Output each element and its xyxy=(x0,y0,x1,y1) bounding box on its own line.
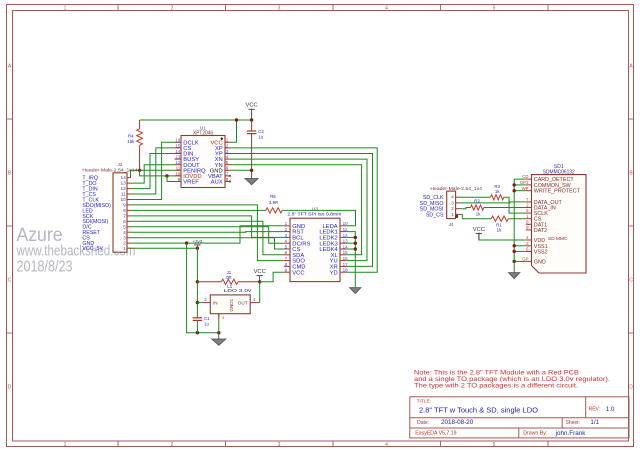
svg-text:EasyEDA V5.7.19: EasyEDA V5.7.19 xyxy=(415,431,456,437)
svg-text:5: 5 xyxy=(493,6,496,12)
svg-text:D: D xyxy=(629,385,633,391)
U1 left pin names and numbers xyxy=(175,138,206,186)
svg-text:The type with 2 TO packages is: The type with 2 TO packages is a differe… xyxy=(414,382,578,389)
svg-text:GND1: GND1 xyxy=(229,298,234,311)
wire GND branch down to ground rail xyxy=(187,243,219,333)
wire J2 D/C to U3 DC/RS xyxy=(131,227,284,243)
svg-text:15: 15 xyxy=(343,250,349,255)
junction VCC rail / U1 VCC xyxy=(235,118,238,121)
svg-text:11: 11 xyxy=(176,166,181,171)
svg-text:4: 4 xyxy=(385,442,388,448)
junction J1 rail / VCC flag / LDO OUT xyxy=(258,280,261,283)
svg-text:R2: R2 xyxy=(474,198,480,203)
svg-text:0R: 0R xyxy=(226,275,232,280)
svg-text:5: 5 xyxy=(123,224,126,230)
wire C1 top lead xyxy=(196,303,198,318)
svg-text:Header-Male-2.54_1x4: Header-Male-2.54_1x4 xyxy=(430,186,482,191)
junction SD GND ground bus xyxy=(513,260,516,263)
resistor R6 3.9R xyxy=(266,208,282,213)
svg-text:4: 4 xyxy=(385,6,388,12)
J4 pin names and numbers xyxy=(420,195,455,219)
ground under SD card xyxy=(513,271,515,274)
wire IOVDD branch down to VREF xyxy=(167,176,175,182)
svg-text:14: 14 xyxy=(175,149,181,154)
connector J2 box xyxy=(113,173,127,252)
junction LEDK4 bus xyxy=(354,247,357,250)
wire J1 rail left lead xyxy=(197,281,221,283)
svg-text:GP2: GP2 xyxy=(520,180,529,185)
svg-text:YD: YD xyxy=(330,270,338,276)
wire +3v3 node down to J1 rail xyxy=(196,248,198,282)
junction LDO IN / C1 xyxy=(196,301,199,304)
J4 pin stubs xyxy=(456,197,461,214)
wire R1 to SD CS xyxy=(508,218,526,220)
wire J4 SD_MISO to SD DATA_OUT xyxy=(461,202,526,203)
ground under U3 LED cathodes xyxy=(350,288,362,294)
svg-text:2: 2 xyxy=(171,6,174,12)
wire J2 T_IRQ jog up to PENIRQ xyxy=(130,170,132,177)
junction +3v3 flag node xyxy=(196,247,199,250)
border row letters A-D xyxy=(8,64,634,391)
wire J2 T_CS to U1 CS xyxy=(131,148,175,194)
wire PENIRQ row xyxy=(130,169,175,171)
wire U1 VCC pin1 dogleg to rail xyxy=(231,120,237,142)
wire SD ground bus to ground xyxy=(513,261,515,271)
resistor R4 15k xyxy=(139,120,141,129)
svg-text:2.8" TFT SPI Iso 0.8mm: 2.8" TFT SPI Iso 0.8mm xyxy=(287,211,341,217)
wire U3 VCC to VCC rail xyxy=(260,272,284,282)
svg-text:15k: 15k xyxy=(127,139,135,144)
U1 pin stubs xyxy=(175,142,232,181)
svg-text:REV:: REV: xyxy=(589,406,600,412)
U1 right pin names and numbers xyxy=(208,138,229,186)
wire IOVDD row from R4 branch xyxy=(140,170,175,176)
U3 pin stubs xyxy=(284,226,346,272)
wire SD GP2 stub to bus xyxy=(514,184,526,186)
wire R3 to SD SCLK xyxy=(504,197,526,213)
svg-text:2.8" TFT w Touch & SD, single: 2.8" TFT w Touch & SD, single LDO xyxy=(419,405,538,414)
junction VSS1 ground bus xyxy=(513,244,516,247)
connector J4 box xyxy=(447,191,456,219)
wire SD CD to ground bus xyxy=(514,179,526,261)
svg-text:3: 3 xyxy=(123,235,126,241)
wire J2 T_DIN to U1 DIN xyxy=(131,154,175,189)
svg-text:VCC: VCC xyxy=(473,227,485,233)
resistor R2 1k xyxy=(470,205,483,210)
svg-text:11: 11 xyxy=(343,227,348,232)
svg-text:SD_CS: SD_CS xyxy=(426,212,444,218)
svg-text:14: 14 xyxy=(343,244,349,249)
svg-text:VREF: VREF xyxy=(183,180,199,186)
wire U1 GND pin6 to ground stem xyxy=(231,169,252,171)
svg-text:VSS2: VSS2 xyxy=(534,249,548,255)
junction ground rail / C1 xyxy=(196,331,199,334)
svg-text:13: 13 xyxy=(175,155,181,160)
LDO pin stubs xyxy=(202,302,211,304)
svg-text:TITLE:: TITLE: xyxy=(417,399,431,405)
svg-text:14: 14 xyxy=(120,175,126,181)
wire C2 bottom to ground xyxy=(251,134,253,179)
wire J4 SD_CS jog down to R1 xyxy=(461,214,492,218)
wire U3 LEDK1 to cathode bus xyxy=(346,232,355,288)
capacitor C2 1u xyxy=(247,130,256,132)
svg-text:+3v3: +3v3 xyxy=(193,239,203,244)
resistor J1 0R link xyxy=(221,279,238,284)
wire C1 bottom lead to ground rail xyxy=(196,320,198,332)
svg-text:J2: J2 xyxy=(118,162,123,167)
J2 pin names and numbers xyxy=(82,175,126,252)
svg-text:1/1: 1/1 xyxy=(590,419,599,426)
wire J2 CS to U3 CS xyxy=(131,238,284,249)
resistor R3 1k xyxy=(491,195,504,200)
resistor R1 1k xyxy=(491,216,508,221)
wire SD GND stub to bus xyxy=(514,260,526,262)
wire U3 LEDK4 stub to bus xyxy=(346,248,355,250)
svg-text:2: 2 xyxy=(171,442,174,448)
note text red xyxy=(414,370,610,390)
svg-text:CD: CD xyxy=(522,174,528,179)
wire J2 T_DO to U1 DOUT xyxy=(131,165,175,183)
svg-text:GP: GP xyxy=(522,257,528,262)
junction U1 GND / ground stem xyxy=(250,169,253,172)
wire U3 LEDK2 stub to bus xyxy=(346,236,355,238)
svg-text:Sheet:: Sheet: xyxy=(566,420,580,426)
wire J2 SDO(MISO) to U3 SDO xyxy=(131,205,284,261)
wire J2 GND to U3 GND xyxy=(131,226,284,243)
wire J2 T_CLK to U1 DCLK xyxy=(131,142,175,199)
wire J2 SDI(MOSI) to U3 SDA xyxy=(131,221,284,255)
svg-text:1: 1 xyxy=(64,6,67,12)
svg-text:13: 13 xyxy=(120,181,126,187)
junction WP ground bus xyxy=(513,189,516,192)
capacitor C1 1u xyxy=(193,317,202,319)
junction R4 / PENIRQ xyxy=(138,169,141,172)
wire LDO OUT up to rail xyxy=(259,282,261,303)
wire J2 LED to R6 xyxy=(131,209,266,211)
wire U1 XP to U3 YD xyxy=(231,148,377,272)
junction J1 rail left / C1 branch xyxy=(196,280,199,283)
svg-text:Header-Male-2.54_1x14: Header-Male-2.54_1x14 xyxy=(82,168,138,173)
title block frame xyxy=(410,397,629,438)
svg-text:C: C xyxy=(8,278,12,284)
svg-text:Date:: Date: xyxy=(417,420,429,426)
svg-text:LDO 3.0v: LDO 3.0v xyxy=(224,288,253,293)
wire VCC flag to SD VDD xyxy=(479,233,526,241)
junction VCC rail / C2 / VCC flag xyxy=(250,118,253,121)
svg-text:3: 3 xyxy=(278,442,281,448)
U3 pin names and numbers xyxy=(285,221,348,276)
svg-text:8: 8 xyxy=(123,208,126,214)
svg-text:12: 12 xyxy=(120,186,126,192)
svg-text:1k: 1k xyxy=(476,211,481,216)
svg-text:13: 13 xyxy=(343,239,349,244)
svg-text:R6: R6 xyxy=(270,194,276,199)
wire VCC rail y=120 xyxy=(140,119,252,121)
svg-text:10: 10 xyxy=(343,221,349,226)
wire J2 VCC_5V to +3v3 node xyxy=(131,247,197,249)
svg-text:11: 11 xyxy=(121,192,126,198)
wire SD VSS2 stub to bus xyxy=(514,250,526,252)
svg-text:2018/8/23: 2018/8/23 xyxy=(17,259,73,276)
svg-text:C: C xyxy=(629,278,633,284)
svg-text:16: 16 xyxy=(343,256,349,261)
wire C1 branch down to LDO IN xyxy=(196,282,198,303)
svg-text:john.Frank: john.Frank xyxy=(555,430,587,437)
svg-text:1k: 1k xyxy=(495,189,500,194)
svg-text:J4: J4 xyxy=(449,222,454,227)
svg-text:4: 4 xyxy=(123,230,126,236)
junction VSS2 ground bus xyxy=(513,250,516,253)
sd card SD1 box xyxy=(532,175,587,273)
wire U3 LEDK3 stub to bus xyxy=(346,242,355,244)
junction LEDK3 bus xyxy=(354,242,357,245)
svg-text:3.9R: 3.9R xyxy=(269,200,278,205)
U1 no-connect pin 7 VBAT xyxy=(229,175,231,177)
svg-text:16: 16 xyxy=(175,138,181,143)
SD1 pin stubs xyxy=(526,179,532,261)
junction ground rail / LDO GND xyxy=(217,331,220,334)
svg-text:WP: WP xyxy=(522,186,529,191)
svg-text:VCC: VCC xyxy=(254,269,266,275)
display module U3 box xyxy=(290,218,340,281)
J2 pin stubs xyxy=(127,178,131,249)
wire U1 XN to U3 YU xyxy=(231,159,367,261)
svg-text:IN: IN xyxy=(213,301,218,306)
svg-text:7: 7 xyxy=(123,214,126,220)
svg-text:VCC: VCC xyxy=(292,270,304,276)
svg-text:12: 12 xyxy=(343,233,349,238)
SD1 pin names and designators xyxy=(520,174,581,265)
svg-text:2: 2 xyxy=(123,241,126,247)
svg-text:XPT2046: XPT2046 xyxy=(193,130,213,136)
junction IOVDD / VREF branch xyxy=(165,174,168,177)
svg-text:10: 10 xyxy=(175,171,181,176)
wire U1 YN to U3 XL xyxy=(231,165,362,255)
ground under C2 xyxy=(245,179,259,185)
wire J1 rail right lead xyxy=(238,281,260,283)
wire rail to C2 top xyxy=(251,120,253,131)
svg-text:D: D xyxy=(8,385,12,391)
wire J2 SCK to U3 BCL xyxy=(131,216,284,238)
svg-text:5: 5 xyxy=(493,442,496,448)
wire R6 to U3 LEDA hook xyxy=(282,210,355,225)
svg-text:VCC_5V: VCC_5V xyxy=(82,246,103,252)
wire J4 SD_MOSI to R2 xyxy=(461,208,471,209)
wire J4 SD_CLK to R3 xyxy=(461,196,491,198)
wire SD VSS1 stub to bus xyxy=(514,245,526,247)
wire R2 to SD DATA_IN xyxy=(484,207,526,209)
junction LEDK2 bus xyxy=(354,236,357,239)
svg-text:1: 1 xyxy=(64,442,67,448)
U1 no-connect pin 8 AUX xyxy=(229,180,231,182)
svg-text:1k: 1k xyxy=(497,228,502,233)
svg-text:2018-08-20: 2018-08-20 xyxy=(441,419,474,426)
svg-text:OUT: OUT xyxy=(238,301,248,306)
svg-text:1u: 1u xyxy=(204,321,209,326)
svg-text:9: 9 xyxy=(123,203,126,209)
regulator LDO box xyxy=(210,295,250,314)
svg-text:WRITE_PROTECT: WRITE_PROTECT xyxy=(534,189,581,195)
svg-text:3: 3 xyxy=(278,6,281,12)
svg-text:10: 10 xyxy=(120,197,126,203)
ground under LDO xyxy=(218,333,220,339)
svg-text:15: 15 xyxy=(175,143,181,148)
svg-text:SD MMC: SD MMC xyxy=(548,236,568,242)
svg-text:R4: R4 xyxy=(128,134,134,139)
wire U1 YP to U3 XR xyxy=(231,154,373,267)
svg-text:GND: GND xyxy=(534,259,546,265)
svg-text:6: 6 xyxy=(123,219,126,225)
svg-text:Drawn By:: Drawn By: xyxy=(523,431,547,437)
svg-text:DAT2: DAT2 xyxy=(534,228,547,234)
op-amp U1 box xyxy=(181,136,225,188)
wire J2 RESET to U3 RST xyxy=(131,231,284,234)
wire SD WP stub to bus xyxy=(514,190,526,192)
wire LDO GND1 down to ground rail xyxy=(218,314,220,333)
wire to LDO IN pin xyxy=(197,302,201,304)
svg-text:12: 12 xyxy=(175,160,181,165)
svg-text:17: 17 xyxy=(343,262,349,267)
svg-text:1.0: 1.0 xyxy=(606,406,615,413)
junction J4 pin1 xyxy=(455,215,458,218)
junction GP2 ground bus xyxy=(513,183,516,186)
svg-text:AUX: AUX xyxy=(211,180,223,186)
svg-text:18: 18 xyxy=(343,268,349,273)
svg-text:1: 1 xyxy=(123,246,126,252)
border column numbers 1-5 xyxy=(64,6,496,449)
svg-text:1u: 1u xyxy=(258,134,263,139)
junction GND row / ground branch xyxy=(185,241,188,244)
svg-text:VCC: VCC xyxy=(245,103,257,109)
